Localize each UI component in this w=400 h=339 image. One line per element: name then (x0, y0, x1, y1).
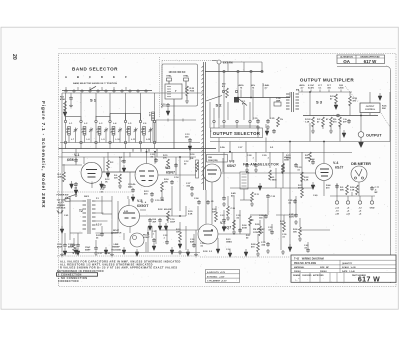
svg-text:VOLTAGE: VOLTAGE (111, 248, 121, 251)
svg-text:17AC: 17AC (85, 246, 91, 249)
svg-text:Figure 7.1 - Schematic, Model: Figure 7.1 - Schematic, Model 28RX (40, 101, 46, 208)
svg-text:1.2K: 1.2K (305, 122, 310, 124)
svg-text:CHECKED: CHECKED (302, 275, 312, 277)
svg-text:6.3 V: 6.3 V (96, 224, 102, 227)
svg-text:T1: T1 (296, 88, 300, 92)
svg-text:⊙A: ⊙A (343, 59, 351, 64)
svg-text:1 MEG: 1 MEG (270, 180, 277, 182)
svg-text:V-1: V-1 (74, 153, 79, 157)
svg-text:DB METER: DB METER (351, 162, 371, 166)
svg-text:C.A: C.A (343, 118, 347, 121)
svg-text:PILOT: PILOT (143, 235, 150, 237)
svg-text:SWEEP: SWEEP (112, 247, 120, 249)
svg-text:S 2: S 2 (216, 103, 223, 108)
svg-text:POWER SW: POWER SW (57, 195, 69, 197)
svg-text:V-6: V-6 (220, 221, 225, 225)
svg-text:SCALE 1=1/8: SCALE 1=1/8 (342, 266, 356, 269)
svg-text:DRAWN: DRAWN (293, 274, 301, 277)
svg-text:100 KC 600 KC: 100 KC 600 KC (169, 71, 186, 74)
svg-text:50K: 50K (382, 108, 386, 110)
svg-text:10UF: 10UF (170, 222, 176, 224)
svg-text:B 750VAC +15V: B 750VAC +15V (207, 275, 225, 278)
svg-text:C23 4%: C23 4% (128, 183, 136, 186)
svg-text:60WT: 60WT (85, 250, 91, 252)
svg-text:C-BAL: C-BAL (263, 84, 270, 87)
svg-text:62.4%: 62.4% (308, 87, 314, 90)
svg-text:SOURCE: SOURCE (57, 208, 67, 210)
svg-text:6SN7: 6SN7 (166, 171, 175, 175)
svg-text:SIZE BP: SIZE BP (320, 267, 330, 269)
svg-text:MATERIAL: MATERIAL (294, 266, 305, 269)
svg-text:LIGHT: LIGHT (143, 237, 150, 239)
svg-text:POWER: POWER (57, 205, 65, 207)
svg-text:617 W: 617 W (358, 277, 380, 284)
svg-text:C.19 .002: C.19 .002 (155, 200, 165, 202)
svg-text:V-2: V-2 (165, 166, 170, 170)
svg-text:BAND SELECTOR SHOWN ON 'C' POS: BAND SELECTOR SHOWN ON 'C' POSITION (73, 82, 117, 85)
svg-text:S 3: S 3 (316, 100, 323, 105)
svg-text:2.2K: 2.2K (304, 180, 309, 182)
svg-text:C FILAMENT +6.3V: C FILAMENT +6.3V (207, 280, 227, 283)
svg-text:1.5K: 1.5K (350, 190, 355, 192)
svg-text:22K: 22K (114, 178, 118, 180)
svg-text:SWITCH: SWITCH (113, 233, 122, 235)
svg-text:S.W: S.W (124, 211, 128, 213)
svg-text:400%: 400% (238, 84, 243, 87)
svg-text:F: F (125, 75, 127, 79)
svg-text:10K: 10K (164, 182, 168, 184)
svg-text:T-42 WIRING DIAGRAM: T-42 WIRING DIAGRAM (294, 257, 324, 260)
svg-text:1%: 1% (280, 119, 283, 121)
svg-text:CONNECTION: CONNECTION (58, 280, 79, 283)
svg-text:100K(1W): 100K(1W) (208, 160, 218, 162)
svg-text:5.6K: 5.6K (188, 214, 193, 216)
svg-text:CONTROL: CONTROL (365, 109, 376, 111)
svg-text:27K: 27K (163, 158, 167, 160)
svg-text:OUTPUT SELECTOR: OUTPUT SELECTOR (213, 131, 261, 136)
svg-text:OUTPUT: OUTPUT (366, 134, 382, 138)
svg-text:BAND SELECTOR: BAND SELECTOR (72, 67, 118, 72)
svg-text:QUANTITY: QUANTITY (342, 262, 353, 265)
svg-text:S.4D: S.4D (231, 192, 236, 195)
svg-text:6SN7: 6SN7 (227, 164, 236, 168)
svg-text:6SJ7: 6SJ7 (335, 165, 343, 169)
svg-text:A 24VOLTS +12V: A 24VOLTS +12V (207, 271, 226, 274)
svg-text:FM SWEEP: FM SWEEP (253, 229, 265, 231)
svg-text:T2: T2 (79, 209, 83, 213)
svg-text:XTAL: XTAL (166, 75, 172, 78)
svg-text:FINISH: FINISH (320, 271, 327, 273)
svg-text:LINE: LINE (114, 244, 119, 246)
svg-text:10K: 10K (176, 232, 180, 234)
svg-text:E: E (113, 75, 115, 79)
svg-text:OUTPUT MULTIPLIER: OUTPUT MULTIPLIER (300, 78, 354, 83)
svg-text:XTAL: XTAL (183, 75, 189, 78)
svg-text:6,800: 6,800 (338, 88, 344, 90)
svg-text:20: 20 (11, 54, 17, 60)
svg-text:4.5K: 4.5K (58, 176, 63, 179)
svg-text:60 CY: 60 CY (58, 202, 64, 204)
svg-text:15K: 15K (293, 232, 297, 234)
svg-text:CONTROL: CONTROL (253, 232, 264, 234)
svg-text:OUTPUT: OUTPUT (366, 106, 375, 108)
svg-text:APPROVED: APPROVED (313, 274, 324, 277)
svg-text:50K: 50K (340, 190, 344, 192)
svg-text:10K: 10K (212, 212, 216, 214)
svg-text:DWG NO. 8773-2369: DWG NO. 8773-2369 (294, 263, 317, 265)
svg-text:220K: 220K (286, 158, 291, 160)
svg-text:GND: GND (370, 208, 375, 210)
svg-text:SW.2: SW.2 (84, 196, 90, 198)
svg-text:S.5A: S.5A (220, 146, 225, 149)
svg-text:470K: 470K (60, 98, 65, 101)
svg-text:470K: 470K (242, 227, 247, 230)
svg-text:100K: 100K (284, 160, 289, 162)
svg-text:600-2W: 600-2W (164, 209, 171, 211)
svg-text:1MEG: 1MEG (226, 242, 232, 244)
svg-text:6X5GT: 6X5GT (137, 204, 149, 208)
svg-text:400%: 400% (299, 84, 304, 87)
svg-text:617 W: 617 W (364, 59, 378, 64)
svg-text:11 - 4: 11 - 4 (141, 201, 147, 204)
svg-text:115 V.AC: 115 V.AC (57, 199, 66, 202)
